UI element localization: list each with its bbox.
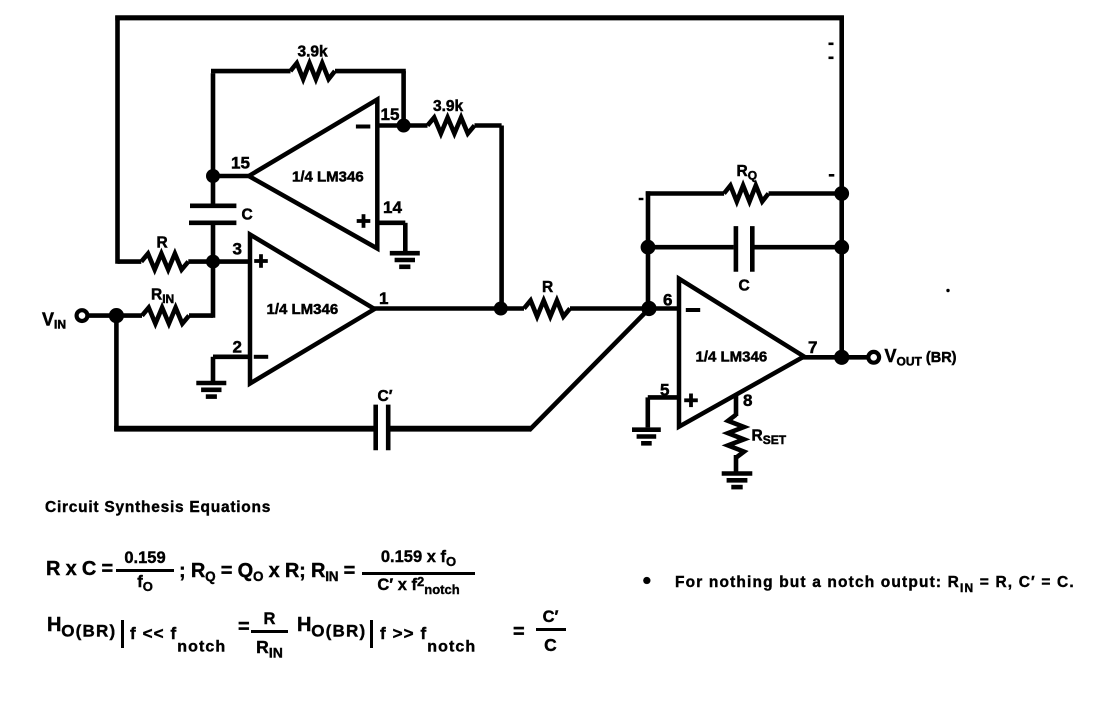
svg-text:C: C (242, 207, 253, 224)
wire: C row right segment (755, 245, 842, 250)
node: junction R / C / RIN riser (206, 255, 220, 269)
capacitor C-prime (373, 405, 378, 451)
svg-text:2: 2 (233, 338, 242, 357)
wire: top feedback bus (115, 15, 844, 20)
svg-text:RQ: RQ (737, 163, 758, 183)
wire: C-prime bus left segment (114, 426, 373, 432)
svg-text:6: 6 (663, 291, 672, 310)
wire: left vertical from top bus down to R input row (115, 16, 120, 264)
minus sign amp B inverting input (254, 355, 268, 359)
resistor RSET (728, 415, 744, 458)
svg-text:C: C (739, 278, 750, 295)
wire: amp C pin 8 stub from lower edge (734, 395, 739, 417)
resistor 3.9k (interstage) (428, 118, 475, 134)
svg-text:VOUT (BR): VOUT (BR) (885, 346, 957, 369)
resistor R (input to amp A +) (118, 259, 142, 264)
fraction R / RIN (251, 611, 288, 656)
capacitor C (left) (190, 204, 236, 209)
wire: feedback riser to 3.9k bus (211, 73, 216, 178)
speck at RQ row left (scan artifact) (639, 198, 644, 200)
wire: amp A non-inverting input stub (377, 221, 405, 226)
resistor RQ (646, 191, 724, 196)
heading: Circuit Synthesis Equations (45, 499, 271, 517)
wire: amp A inverting input to 3.9k interstage (377, 123, 427, 128)
ground at amp B pin 2 (196, 381, 226, 386)
svg-text:1/4 LM346: 1/4 LM346 (267, 301, 339, 318)
resistor R (middle) (524, 301, 570, 317)
wire: amp C non-inverting input stub (648, 395, 680, 400)
wire: diagonal from C-prime bus to summing node (529, 308, 650, 431)
bullet note (642, 572, 652, 590)
speck right of middle R (scan artifact) (946, 289, 949, 292)
svg-text:RSET: RSET (752, 428, 787, 448)
node: VIN junction to C-prime bus (109, 308, 124, 323)
node: C row right junction on output riser (834, 240, 849, 255)
svg-text:15: 15 (381, 105, 400, 124)
op-amp U3 amp C 1/4 LM346 (679, 279, 804, 427)
ground at RSET (722, 471, 753, 476)
svg-text:1: 1 (379, 289, 388, 308)
svg-text:3.9k: 3.9k (433, 98, 464, 115)
wire: right vertical from top bus down to output node (839, 16, 844, 358)
svg-text:3: 3 (233, 240, 242, 259)
wire: amp C output to VOUT terminal (800, 355, 868, 360)
wire: vertical branch junction to top of capacitor C (211, 176, 216, 205)
wire: riser RIN row up to + input row of amp B (211, 264, 216, 318)
plus sign amp B non-inverting input (254, 259, 268, 263)
wire: VIN junction down to C-prime bus (114, 314, 119, 431)
equation line 1: RQ and RIN terms (179, 560, 355, 583)
node: junction inverting input / feedback riser (397, 119, 411, 133)
speck near output riser (scan artifact) (829, 43, 834, 46)
wire: 3.9k bus down to amp A inverting input (401, 71, 406, 125)
node: summing junction at amp C inverting input (641, 301, 656, 316)
capacitor C (right) (734, 226, 739, 272)
svg-text:R: R (542, 279, 553, 296)
wire: interstage riser down to amp B output row (499, 126, 504, 309)
svg-text:8: 8 (743, 391, 752, 410)
wire: C row left segment (648, 245, 734, 250)
wire: junction to amp A output apex (211, 174, 250, 179)
fraction C' / C (536, 609, 566, 654)
svg-text:7: 7 (808, 338, 817, 357)
svg-text:C′: C′ (378, 388, 393, 405)
node: junction amp B output / interstage riser (494, 302, 508, 316)
wire: VIN terminal to RIN (87, 313, 142, 318)
wire: amp B output to summing node (373, 306, 524, 311)
svg-text:15: 15 (231, 154, 250, 173)
speck near output riser 2 (scan artifact) (829, 57, 834, 60)
svg-text:1/4 LM346: 1/4 LM346 (696, 349, 768, 366)
svg-text:RIN: RIN (151, 287, 174, 307)
equation line 2: HO(BR) low frequency (47, 614, 116, 637)
fraction 0.159 / fO (116, 550, 174, 591)
minus sign amp C inverting input (686, 308, 700, 312)
op-amp U2 amp B 1/4 LM346 (250, 235, 375, 384)
ground at amp C pin 5 (632, 427, 661, 432)
wire: RSET to ground (734, 455, 739, 472)
equation line 2: HO(BR) high frequency (297, 614, 366, 637)
wire: C-prime bus right segment (390, 426, 531, 432)
plus sign amp C non-inverting input (684, 398, 698, 402)
wire: amp B inverting input stub to ground (213, 354, 251, 359)
svg-text:3.9k: 3.9k (298, 44, 329, 61)
plus sign amp A non-inverting input (357, 219, 371, 223)
resistor 3.9k (feedback of amp A) (211, 69, 291, 74)
resistor RIN (142, 308, 189, 324)
svg-text:14: 14 (383, 198, 402, 217)
terminal VOUT circle (868, 352, 879, 363)
svg-text:VIN: VIN (42, 310, 66, 332)
wire: network left vertical (646, 191, 651, 308)
terminal VIN circle (77, 310, 88, 321)
equation line 1: R x C (46, 558, 113, 581)
node: amp A output junction (206, 169, 220, 183)
op-amp U1 amp A 1/4 LM346 (left-pointing triangle) (249, 100, 377, 249)
node: RQ right junction on output riser (834, 186, 849, 201)
node: output junction (834, 350, 849, 365)
svg-text:1/4 LM346: 1/4 LM346 (292, 169, 364, 186)
minus sign amp A inverting input (356, 125, 370, 129)
ground at amp A pin 14 (390, 251, 420, 256)
svg-text:R: R (157, 235, 168, 252)
node: C row left junction (641, 240, 656, 255)
fraction 0.159 x fO / C' x f2notch (362, 549, 475, 594)
wire: bottom of capacitor C to R row junction (211, 225, 216, 262)
speck left of RQ (scan artifact) (829, 174, 835, 177)
